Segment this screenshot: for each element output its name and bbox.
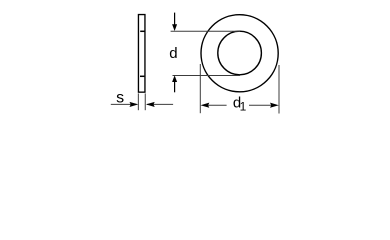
inner circle (hole) xyxy=(218,31,262,75)
s dimension left arrowhead xyxy=(130,102,139,107)
s dimension right arrowhead xyxy=(146,102,155,107)
d1 extension line right xyxy=(278,65,280,114)
svg-text:1: 1 xyxy=(240,99,247,113)
d1 dimension right line xyxy=(249,104,272,106)
outer circle xyxy=(201,15,278,92)
d extension line bottom (tangent to hole bottom) xyxy=(173,75,241,77)
d dimension line bottom segment xyxy=(174,81,176,93)
hole edge tick top xyxy=(140,30,145,32)
d extension line top (tangent to hole top) xyxy=(171,30,240,32)
d dimension top arrowhead (down) xyxy=(172,24,177,31)
d1 right arrowhead xyxy=(270,103,279,108)
d dimension line top segment xyxy=(174,13,176,26)
d1 extension line left xyxy=(199,64,201,113)
d1 dimension left line xyxy=(208,104,227,106)
d1 left arrowhead xyxy=(201,103,210,108)
s dimension left line xyxy=(111,103,137,105)
svg-text:s: s xyxy=(116,90,124,107)
s dimension right line xyxy=(147,103,173,105)
d dimension bottom arrowhead (up) xyxy=(172,75,177,82)
washer side view outline xyxy=(138,15,145,93)
extension line below rect right xyxy=(144,93,146,110)
hole edge tick bottom xyxy=(140,75,144,77)
svg-text:d: d xyxy=(169,45,177,62)
extension line below rect left xyxy=(137,93,139,110)
